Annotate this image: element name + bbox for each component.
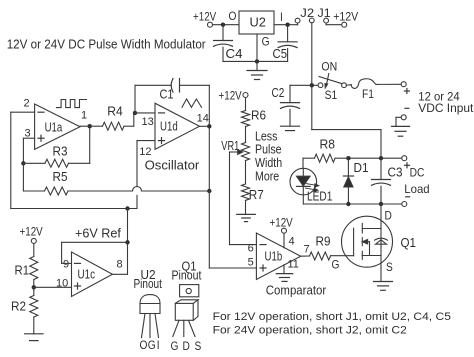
LED1 <box>302 158 304 168</box>
svg-text:6: 6 <box>248 242 254 254</box>
jumper J2 <box>297 23 299 25</box>
- input terminal <box>401 115 406 120</box>
wire pin5 <box>208 191 210 268</box>
svg-text:G: G <box>332 259 340 272</box>
svg-text:LED1: LED1 <box>307 190 332 204</box>
svg-text:R3: R3 <box>53 145 68 159</box>
wire pin13 <box>134 112 155 114</box>
svg-text:+12V: +12V <box>219 91 242 103</box>
svg-text:Pinout: Pinout <box>172 269 202 283</box>
wire 6V ref bus <box>11 208 137 210</box>
wire pin12 <box>137 140 155 142</box>
svg-text:12: 12 <box>139 146 151 158</box>
node U1d output <box>207 124 211 128</box>
svg-text:+12V: +12V <box>20 227 43 239</box>
svg-text:Load: Load <box>404 182 429 196</box>
Q1 drain tap <box>362 228 381 230</box>
+ input terminal <box>401 82 406 87</box>
ground <box>256 61 258 70</box>
node +6V ref <box>125 240 129 244</box>
svg-text:U1d: U1d <box>160 120 178 134</box>
node C4 junction <box>221 23 225 27</box>
U2 pinout TO-92 body <box>140 304 160 314</box>
resistor R4 <box>90 125 103 127</box>
svg-text:8: 8 <box>117 259 123 271</box>
svg-text:C4: C4 <box>226 47 243 61</box>
wire <box>274 24 298 26</box>
svg-text:+6V Ref: +6V Ref <box>75 225 121 240</box>
op-amp U1d <box>155 103 200 149</box>
ground <box>374 281 393 283</box>
op-amp U1c <box>72 252 113 297</box>
wire drain <box>380 204 382 229</box>
wire bus jog <box>312 129 381 131</box>
svg-text:R2: R2 <box>11 300 26 314</box>
node D1 top <box>346 156 350 160</box>
resistor R8 <box>315 154 336 162</box>
resistor R7 <box>245 161 247 185</box>
svg-text:Q1: Q1 <box>401 236 417 250</box>
svg-text:+12V: +12V <box>270 218 293 230</box>
resistor R1 <box>33 243 35 256</box>
node pin13 junction <box>133 111 137 115</box>
wire R5 to node <box>142 190 210 192</box>
wire bottom rail <box>303 203 381 205</box>
svg-text:1: 1 <box>81 110 87 122</box>
svg-text:14: 14 <box>197 112 209 124</box>
node ref branch <box>125 206 129 210</box>
svg-text:Pulse: Pulse <box>255 143 282 157</box>
Q1 body diode <box>380 229 382 256</box>
svg-text:R9: R9 <box>316 235 331 249</box>
ground <box>25 333 44 335</box>
capacitor C3 <box>380 158 382 179</box>
svg-text:S: S <box>386 261 393 274</box>
jumper J1 <box>324 18 329 23</box>
svg-text:R5: R5 <box>53 170 68 184</box>
wire J2 to bus <box>311 23 313 85</box>
resistor R3 <box>23 162 45 164</box>
wire R8 rail <box>303 157 315 159</box>
svg-text:11: 11 <box>288 259 299 271</box>
op-amp U1a <box>35 104 80 149</box>
node C3 top <box>379 156 383 160</box>
resistor R6 <box>245 98 247 111</box>
svg-text:D: D <box>183 340 190 353</box>
svg-text:U1b: U1b <box>265 250 283 264</box>
wire hop over pin12 line <box>133 187 142 191</box>
node U1a output <box>88 124 92 128</box>
svg-text:Less: Less <box>255 130 278 144</box>
wire pin8 up <box>112 273 127 275</box>
wire bus down <box>311 85 313 129</box>
wire to + load terminal <box>381 157 402 159</box>
svg-text:I: I <box>157 339 160 352</box>
ground <box>281 125 300 127</box>
node D1 bottom <box>346 202 350 206</box>
capacitor C2 <box>289 85 291 102</box>
wire VR1 wiper down <box>229 152 231 245</box>
wire ref branch down <box>127 209 129 243</box>
op-amp U1b <box>256 233 300 280</box>
wire U1d output down <box>200 125 210 127</box>
svg-text:7: 7 <box>304 243 310 255</box>
Q1 channel dashes <box>361 223 363 233</box>
svg-text:ON: ON <box>321 60 337 74</box>
svg-text:U1a: U1a <box>45 120 63 134</box>
regulator U2 <box>239 11 274 34</box>
Q1 pinout legs <box>173 320 179 336</box>
capacitor C5 <box>287 25 289 42</box>
svg-text:Oscillator: Oscillator <box>145 157 200 172</box>
svg-text:F1: F1 <box>362 87 374 101</box>
potentiometer VR1 <box>242 143 250 161</box>
square wave symbol <box>57 100 87 108</box>
svg-text:2: 2 <box>24 98 30 110</box>
Q1 gate lead <box>331 255 354 257</box>
resistor R2 <box>33 287 35 295</box>
svg-text:Comparator: Comparator <box>266 283 327 298</box>
svg-text:O: O <box>140 339 148 352</box>
wire to - load terminal <box>381 203 402 205</box>
svg-text:C3: C3 <box>388 166 403 180</box>
wire to C2 <box>290 84 312 86</box>
svg-text:More: More <box>255 170 279 184</box>
node R5/U1d junction <box>207 189 211 193</box>
svg-text:R7: R7 <box>249 188 264 202</box>
switch S1 <box>314 84 318 86</box>
svg-text:J2: J2 <box>300 6 314 20</box>
Q1 gate plate <box>353 228 355 256</box>
wire pin6 <box>230 244 257 246</box>
+12V regulated supply terminal <box>208 22 213 27</box>
fuse F1 <box>346 84 351 86</box>
svg-text:J1: J1 <box>318 6 331 20</box>
svg-text:Width: Width <box>255 156 282 170</box>
svg-text:S: S <box>195 340 202 353</box>
wire pin3 <box>23 137 34 139</box>
svg-text:R1: R1 <box>15 264 30 278</box>
wire cap common <box>223 60 288 62</box>
wire pin11 ground <box>283 265 285 274</box>
wire pin10 <box>34 286 72 288</box>
transistor Q1 body circle <box>342 216 393 267</box>
svg-text:I: I <box>280 11 283 24</box>
wire <box>396 116 401 118</box>
+12V battery-side terminal <box>342 22 347 27</box>
wire C1 feedback left <box>134 85 136 113</box>
wire <box>213 24 240 26</box>
wire C1 feedback right <box>180 84 210 86</box>
svg-text:G: G <box>262 36 270 49</box>
wire source to ground <box>380 256 382 282</box>
ground <box>237 213 256 215</box>
svg-text:D1: D1 <box>354 161 369 175</box>
svg-text:G: G <box>148 339 156 352</box>
resistor R9 <box>301 255 310 257</box>
svg-text:R6: R6 <box>251 109 266 123</box>
Q1 pinout body <box>175 303 193 320</box>
svg-text:U2: U2 <box>250 16 266 30</box>
svg-text:13: 13 <box>142 116 154 128</box>
svg-text:R8: R8 <box>320 138 336 152</box>
svg-text:R4: R4 <box>107 105 123 119</box>
svg-text:For 24V operation, short J2, o: For 24V operation, short J2, omit C2 <box>213 325 407 337</box>
resistor R5 <box>22 163 24 191</box>
svg-text:C1: C1 <box>160 88 174 102</box>
triangle wave symbol <box>182 99 202 107</box>
svg-text:12V or 24V DC Pulse Width Modu: 12V or 24V DC Pulse Width Modulator <box>7 36 207 51</box>
svg-text:C2: C2 <box>272 87 285 100</box>
svg-text:Pinout: Pinout <box>134 277 163 291</box>
diode D1 <box>347 158 349 176</box>
- load terminal <box>402 202 407 207</box>
svg-text:VR1: VR1 <box>221 139 239 153</box>
svg-text:9: 9 <box>63 259 69 271</box>
capacitor C1 <box>171 79 173 93</box>
svg-text:5: 5 <box>248 257 254 269</box>
Q1 source tap <box>362 255 381 257</box>
svg-text:G: G <box>171 340 179 353</box>
wire pin2 feed <box>11 111 35 113</box>
svg-text:+12V: +12V <box>333 12 358 24</box>
svg-text:O: O <box>229 10 237 23</box>
svg-text:For 12V operation, short J1, o: For 12V operation, short J1, omit U2, C4… <box>213 311 451 323</box>
node S1 junction <box>310 83 314 87</box>
+ load terminal <box>402 156 407 161</box>
node R3 junction <box>21 161 25 165</box>
svg-text:C5: C5 <box>273 47 288 61</box>
svg-text:VDC Input: VDC Input <box>418 101 474 115</box>
svg-text:D: D <box>385 210 392 223</box>
Q1 pinout tab <box>180 285 199 297</box>
svg-text:10: 10 <box>56 278 68 290</box>
wire <box>80 125 90 127</box>
wire rail <box>348 157 381 159</box>
node C3 bottom <box>379 202 383 206</box>
svg-text:4: 4 <box>289 236 295 248</box>
node R1/R2 junction <box>32 285 36 289</box>
wire U2 ground lead <box>256 34 258 61</box>
node ground junction <box>255 59 259 63</box>
capacitor C4 <box>222 25 224 41</box>
svg-text:U1c: U1c <box>78 268 96 282</box>
U2 pinout legs <box>142 314 146 338</box>
ground <box>392 125 410 127</box>
node C5 junction <box>285 23 289 27</box>
Q1 body arrow <box>362 240 367 244</box>
wire pin9 feedback <box>62 262 72 264</box>
ground <box>276 273 293 275</box>
svg-text:S1: S1 <box>325 88 338 102</box>
svg-text:+12V: +12V <box>193 11 216 23</box>
svg-text:DC: DC <box>410 167 425 180</box>
